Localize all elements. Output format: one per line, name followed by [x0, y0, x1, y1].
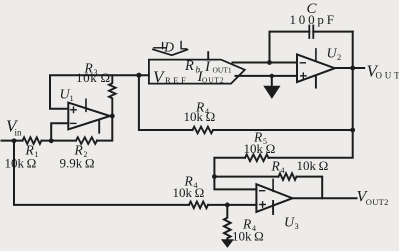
wire R1 to R2: [42, 140, 77, 142]
node R4a-Vout junction: [350, 128, 355, 133]
node bottom rail junction: [225, 203, 230, 208]
node U1 output junction: [110, 114, 115, 119]
svg-text:OUT2: OUT2: [366, 197, 389, 207]
wire Iout1 to U2 inverting input: [233, 62, 298, 64]
digital input D arrow: [153, 40, 188, 56]
svg-text:10k Ω: 10k Ω: [184, 109, 216, 124]
wire feedback rail: [214, 176, 278, 178]
op-amp U1: [60, 88, 111, 133]
wire top rail down to R4a rail: [139, 75, 193, 130]
svg-text:D: D: [163, 40, 174, 55]
wire Vout vertical: [269, 68, 353, 158]
svg-text:10k Ω: 10k Ω: [76, 70, 111, 85]
wire R4a to Vout vertical: [213, 129, 353, 131]
svg-text:9.9k Ω: 9.9k Ω: [60, 156, 95, 171]
ground under U2 input: [264, 76, 279, 98]
svg-text:10k Ω: 10k Ω: [5, 156, 37, 171]
svg-text:4: 4: [281, 166, 285, 175]
wire U2 output: [335, 67, 364, 69]
node ground tap junction: [270, 74, 274, 78]
svg-text:10k Ω: 10k Ω: [232, 228, 264, 243]
resistor R2: [60, 137, 98, 170]
node R1-R2 junction: [49, 138, 54, 143]
svg-text:REF: REF: [165, 75, 188, 85]
wire R2 to U1 output riser: [97, 116, 112, 141]
wire U1 noninverting input and top rail to Vref: [50, 75, 149, 109]
wire Vin vertical down to bottom rail: [14, 141, 189, 205]
node summing junction: [212, 174, 217, 179]
svg-text:I: I: [204, 59, 211, 75]
node Vin label: [6, 117, 22, 138]
resistor R3: [76, 61, 116, 117]
svg-text:10k Ω: 10k Ω: [297, 158, 329, 173]
svg-text:R: R: [271, 159, 281, 174]
wire feedback down to output: [297, 177, 323, 199]
DAC block with Rb: [149, 52, 245, 86]
svg-text:OUT1: OUT1: [213, 66, 232, 75]
svg-text:R: R: [184, 58, 194, 74]
node Vout2 label: [357, 189, 389, 207]
svg-text:2: 2: [337, 52, 341, 62]
svg-text:3: 3: [295, 221, 299, 231]
svg-text:U: U: [327, 47, 338, 62]
node top rail junction: [136, 73, 141, 78]
wire Iout2 to U2 noninverting input: [236, 75, 298, 77]
svg-text:U: U: [284, 216, 295, 231]
op-amp U2: [297, 47, 341, 88]
svg-text:1: 1: [70, 93, 74, 103]
node capacitor tap junction: [267, 60, 272, 65]
wire bottom rail to U3 noninverting input: [208, 204, 256, 206]
node Vout label: [367, 61, 399, 80]
capacitor C1: [270, 1, 353, 68]
op-amp U3: [256, 179, 298, 231]
svg-text:OUT: OUT: [376, 71, 399, 81]
svg-text:10k Ω: 10k Ω: [173, 185, 205, 200]
wire R5 to summing node: [214, 158, 256, 190]
svg-text:100pF: 100pF: [290, 12, 337, 27]
svg-text:10k Ω: 10k Ω: [244, 141, 276, 156]
svg-text:in: in: [15, 128, 23, 138]
resistor R4 to ground: [224, 205, 264, 243]
wire Vin stub: [2, 140, 23, 142]
resistor R1: [5, 137, 42, 170]
node Vin junction: [12, 138, 17, 143]
resistor R5: [244, 130, 276, 162]
ground under R4: [222, 240, 233, 247]
resistor R4 top middle: [184, 100, 216, 134]
resistor R4 feedback: [271, 158, 329, 180]
wire inverting input riser U1: [51, 123, 68, 140]
wire U3 output: [292, 197, 356, 199]
node Vout junction: [350, 66, 355, 71]
resistor R4 bottom rail: [173, 174, 209, 209]
svg-text:OUT2: OUT2: [202, 75, 224, 84]
